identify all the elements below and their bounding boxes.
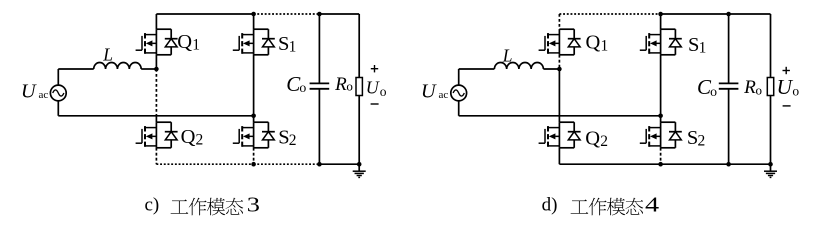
svg-text:L: L <box>502 45 513 65</box>
svg-text:1: 1 <box>192 37 200 54</box>
svg-text:R: R <box>743 77 756 98</box>
svg-text:R: R <box>334 74 347 95</box>
svg-text:o: o <box>299 80 306 95</box>
svg-text:d): d) <box>542 194 558 215</box>
svg-text:U: U <box>21 81 37 103</box>
svg-text:2: 2 <box>698 133 706 150</box>
svg-text:1: 1 <box>601 37 609 54</box>
svg-text:U: U <box>777 75 794 99</box>
svg-text:o: o <box>380 84 387 99</box>
svg-text:o: o <box>756 83 763 98</box>
svg-text:2: 2 <box>289 132 297 149</box>
svg-text:2: 2 <box>196 132 204 149</box>
svg-text:U: U <box>366 78 380 98</box>
svg-text:ac: ac <box>439 89 449 101</box>
svg-text:3: 3 <box>247 193 260 217</box>
svg-text:1: 1 <box>699 39 707 56</box>
svg-text:o: o <box>346 78 353 93</box>
svg-text:2: 2 <box>600 133 608 150</box>
svg-text:c): c) <box>145 194 160 215</box>
svg-text:o: o <box>710 84 717 99</box>
svg-text:ac: ac <box>39 89 49 101</box>
svg-text:o: o <box>792 84 799 99</box>
svg-text:4: 4 <box>645 193 659 217</box>
svg-text:1: 1 <box>289 38 297 55</box>
svg-text:L: L <box>102 44 113 64</box>
svg-text:Q: Q <box>181 126 196 148</box>
svg-text:U: U <box>421 81 437 103</box>
svg-text:Q: Q <box>177 31 192 53</box>
svg-text:Q: Q <box>585 127 600 149</box>
svg-text:Q: Q <box>586 32 601 54</box>
